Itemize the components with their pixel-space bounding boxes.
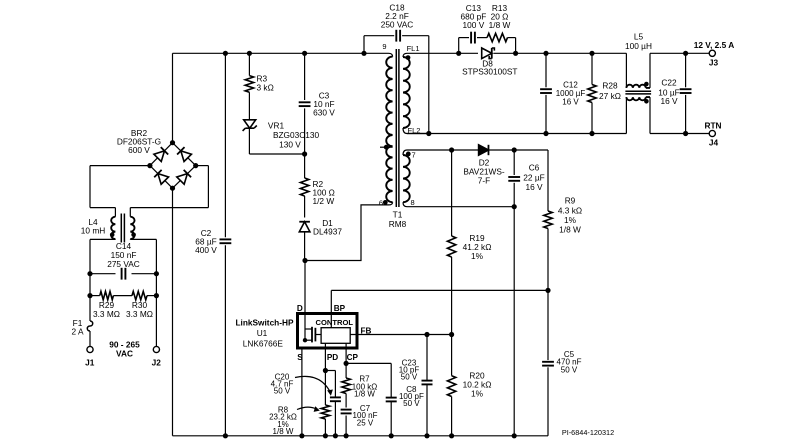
junction: C2/top rail bbox=[223, 51, 228, 56]
svg-text:50 V: 50 V bbox=[274, 387, 291, 396]
junction: R20/ground rail bbox=[449, 433, 454, 438]
diode D8 bbox=[482, 48, 495, 59]
svg-text:25 V: 25 V bbox=[357, 419, 374, 428]
terminal J4 bbox=[709, 130, 715, 136]
phase dot L5 top bbox=[644, 82, 649, 87]
wire: AC input right rail (J2 up to L4) bbox=[155, 239, 157, 346]
wire: R3 branch bbox=[248, 53, 250, 75]
wire: bridge diamond frame bbox=[150, 143, 173, 166]
svg-text:RTN: RTN bbox=[704, 121, 721, 131]
capacitor C6 bbox=[508, 176, 520, 178]
transformer T1 primary winding bbox=[386, 57, 392, 203]
junction: R30 right bbox=[154, 293, 159, 298]
junction: R3/top rail bbox=[247, 51, 252, 56]
phase dot pin 7 bbox=[406, 152, 411, 157]
wire: R9 branch bbox=[514, 149, 548, 151]
inductor L5 bottom winding bbox=[626, 97, 645, 100]
junction: R8/ground rail bbox=[323, 433, 328, 438]
wire: R19 branch bbox=[451, 150, 453, 236]
svg-text:FL1: FL1 bbox=[407, 44, 420, 53]
svg-text:10 mH: 10 mH bbox=[81, 226, 105, 236]
capacitor C22 bbox=[680, 88, 692, 90]
wire: bridge left vertex to L4 left winding bbox=[90, 165, 150, 167]
junction: bridge left vertex bbox=[147, 163, 152, 168]
junction: C18/top rail bbox=[361, 51, 366, 56]
wire: L5 bottom winding leads bbox=[625, 97, 627, 133]
wire: top rail to primary pin 9 bbox=[389, 53, 393, 56]
svg-text:22 µF: 22 µF bbox=[523, 173, 544, 183]
capacitor C2 bbox=[220, 238, 232, 240]
phase dot T1 primary pin 6 bbox=[383, 200, 388, 205]
arrow to R8 bbox=[297, 407, 317, 409]
svg-text:C22: C22 bbox=[661, 77, 677, 87]
svg-text:50 V: 50 V bbox=[401, 373, 418, 382]
svg-text:600 V: 600 V bbox=[128, 145, 150, 155]
junction: C14 right bbox=[154, 271, 159, 276]
junction: D8 cathode node bbox=[513, 51, 518, 56]
junction: C14 left bbox=[87, 271, 92, 276]
junction: C22 top bbox=[683, 51, 688, 56]
resistor R30 bbox=[132, 291, 147, 299]
svg-text:275 VAC: 275 VAC bbox=[107, 259, 140, 269]
svg-text:130 V: 130 V bbox=[279, 140, 301, 150]
svg-text:BZG03C130: BZG03C130 bbox=[273, 130, 320, 140]
wire: FB pin line bbox=[350, 334, 451, 336]
wire: pin 8 lead bbox=[403, 202, 515, 207]
junction: FB/C23 bbox=[424, 332, 429, 337]
resistor R19 bbox=[447, 236, 455, 257]
wire: primary ground rail bbox=[173, 435, 549, 437]
zener diode VR1 bbox=[244, 120, 256, 128]
junction: S/ground rail bbox=[299, 433, 304, 438]
svg-text:1/8 W: 1/8 W bbox=[489, 20, 511, 30]
resistor R7 bbox=[342, 378, 350, 394]
wire: U1 S pin to ground rail bbox=[301, 348, 303, 436]
svg-text:1/8 W: 1/8 W bbox=[559, 225, 581, 235]
svg-text:T1: T1 bbox=[393, 210, 403, 220]
wire: BP pin line bbox=[330, 290, 332, 327]
phase dot L4 left bbox=[110, 233, 115, 238]
capacitor C8 bbox=[386, 397, 397, 399]
wire: top rail (DC bus) bbox=[173, 52, 389, 54]
svg-text:DL4937: DL4937 bbox=[313, 227, 342, 237]
wire: output positive rail bbox=[516, 52, 627, 54]
svg-text:2 A: 2 A bbox=[72, 327, 84, 337]
svg-text:9: 9 bbox=[382, 42, 386, 51]
capacitor C20 bbox=[330, 396, 341, 398]
svg-text:16 V: 16 V bbox=[562, 97, 579, 106]
diode BR2 bottom-right bbox=[177, 170, 191, 184]
wire: C12 branch bbox=[545, 53, 547, 87]
svg-text:LinkSwitch-HP: LinkSwitch-HP bbox=[235, 318, 294, 328]
op-amp U1 box bbox=[298, 314, 358, 349]
svg-text:100 µH: 100 µH bbox=[625, 41, 652, 51]
wire: VR1 to junction bbox=[248, 128, 250, 154]
junction: R19 top bbox=[449, 147, 454, 152]
junction: R29 left bbox=[87, 293, 92, 298]
inductor L4 left winding bbox=[111, 217, 115, 239]
svg-text:J1: J1 bbox=[85, 358, 95, 368]
transformer T1 bias winding 7-8 bbox=[403, 155, 410, 202]
resistor R29 bbox=[100, 291, 114, 299]
svg-text:CP: CP bbox=[347, 353, 359, 362]
transistor U1 internal MOSFET bbox=[304, 314, 306, 341]
wire: C23 branch bbox=[426, 335, 428, 381]
svg-text:1/2 W: 1/2 W bbox=[313, 196, 335, 206]
wire: L4 right winding top to bridge right vertex bbox=[129, 208, 131, 217]
wire: R29-R30 line bbox=[90, 295, 100, 297]
resistor R28 bbox=[588, 85, 596, 103]
wire: C5 branch bbox=[547, 290, 549, 360]
transformer T1 core bbox=[395, 49, 397, 207]
inductor L5 core bbox=[625, 90, 651, 92]
junction: CP node bbox=[344, 361, 349, 366]
inductor L4 right winding bbox=[130, 217, 134, 239]
svg-text:3 kΩ: 3 kΩ bbox=[257, 83, 274, 93]
resistor R13 bbox=[487, 33, 507, 41]
diode D2 bbox=[479, 145, 489, 155]
wire: C20 branch bbox=[325, 370, 335, 372]
svg-text:PD: PD bbox=[327, 353, 338, 362]
capacitor C5 bbox=[542, 361, 554, 363]
wire: R20 branch bbox=[451, 335, 453, 376]
svg-text:7: 7 bbox=[412, 151, 416, 160]
wire: L5 top winding left lead bbox=[625, 53, 627, 88]
svg-text:250 VAC: 250 VAC bbox=[381, 20, 414, 30]
U1 control block bbox=[321, 328, 350, 344]
diode BR2 top-right bbox=[177, 147, 191, 161]
resistor R9 bbox=[544, 211, 552, 229]
svg-text:12 V, 2.5 A: 12 V, 2.5 A bbox=[694, 40, 734, 50]
junction: C2/ground rail bbox=[223, 433, 228, 438]
svg-text:VR1: VR1 bbox=[268, 121, 285, 131]
wire: pin 6 lead to drain node bbox=[305, 202, 393, 260]
diode D1 bbox=[299, 222, 310, 232]
junction: C12 top bbox=[543, 51, 548, 56]
wire: D1 to drain node bbox=[304, 232, 306, 261]
junction: C23/ground rail bbox=[424, 433, 429, 438]
wire: C3 branch bbox=[304, 53, 306, 100]
wire: C18 bracket bbox=[363, 36, 365, 54]
svg-text:STPS30100ST: STPS30100ST bbox=[462, 67, 517, 77]
junction: R28 bottom bbox=[589, 131, 594, 136]
wire: bridge top vertex to top rail bbox=[172, 53, 174, 142]
wire: bridge bottom vertex to ground rail bbox=[172, 188, 174, 436]
wire: secondary return rail bbox=[407, 133, 626, 135]
wire: L4 right winding bottom lead bbox=[129, 238, 131, 240]
wire: D8 leads bbox=[459, 52, 478, 54]
diode BR2 bottom-left bbox=[154, 170, 168, 184]
svg-text:J2: J2 bbox=[152, 358, 162, 368]
junction: VR1-C3 node bbox=[302, 151, 307, 156]
capacitor C18 bbox=[395, 30, 397, 42]
svg-text:1/8 W: 1/8 W bbox=[354, 390, 375, 399]
svg-text:27 kΩ: 27 kΩ bbox=[599, 91, 621, 101]
wire: R28 branch bbox=[591, 53, 593, 84]
phase dot FL1 bbox=[406, 55, 411, 60]
terminal J1 bbox=[87, 346, 93, 352]
phase dot L5 bottom bbox=[644, 99, 649, 104]
junction: C8/ground rail bbox=[389, 433, 394, 438]
svg-text:630 V: 630 V bbox=[313, 108, 335, 118]
terminal J2 bbox=[153, 346, 159, 352]
svg-text:1%: 1% bbox=[564, 215, 577, 225]
wire: L5 top winding right lead bbox=[649, 53, 651, 88]
junction: FB/R19-R20 bbox=[449, 332, 454, 337]
junction: D2 cathode node bbox=[512, 147, 517, 152]
junction: C18/return rail bbox=[426, 131, 431, 136]
terminal J3 bbox=[709, 50, 715, 56]
phase dot L4 right bbox=[131, 233, 136, 238]
junction: C22 bottom bbox=[683, 131, 688, 136]
inductor L4 core bbox=[120, 214, 122, 243]
wire: C22 branch bbox=[685, 53, 687, 87]
junction: C20/ground rail bbox=[333, 433, 338, 438]
junction: BP line / R9-C5 node bbox=[545, 288, 550, 293]
capacitor C3 bbox=[299, 101, 311, 103]
resistor R3 bbox=[245, 76, 253, 93]
svg-text:50 V: 50 V bbox=[561, 365, 578, 374]
svg-text:J4: J4 bbox=[709, 138, 719, 148]
wire: R2 branch bbox=[304, 154, 306, 178]
capacitor C12 bbox=[540, 88, 552, 90]
svg-text:1%: 1% bbox=[471, 389, 484, 399]
wire: pin 7 lead bbox=[403, 150, 452, 155]
junction: bridge bottom vertex bbox=[170, 186, 175, 191]
svg-text:6: 6 bbox=[379, 198, 383, 207]
wire: PD pin to R8 bbox=[324, 343, 326, 405]
svg-text:D: D bbox=[297, 304, 303, 313]
wire: C8 branch bbox=[346, 362, 391, 364]
capacitor C7 bbox=[341, 409, 352, 411]
junction: D1/drain node bbox=[302, 258, 307, 263]
transformer T1 secondary winding FL1-FL2 bbox=[403, 57, 410, 128]
wire: C13-R13 snubber bracket bbox=[458, 38, 460, 54]
svg-text:3.3 MΩ: 3.3 MΩ bbox=[93, 309, 120, 319]
wire: L4 left winding bottom lead bbox=[114, 238, 116, 240]
wire: C2 branch bbox=[224, 53, 226, 237]
capacitor C13 bbox=[470, 32, 472, 44]
svg-text:CONTROL: CONTROL bbox=[316, 318, 354, 327]
wire: D2 leads bbox=[452, 149, 479, 151]
svg-text:16 V: 16 V bbox=[525, 182, 543, 192]
svg-text:4.3 kΩ: 4.3 kΩ bbox=[558, 205, 582, 215]
svg-text:U1: U1 bbox=[257, 328, 268, 338]
junction: bridge right vertex bbox=[193, 163, 198, 168]
svg-text:1/8 W: 1/8 W bbox=[273, 427, 294, 436]
junction: D8 anode node bbox=[456, 51, 461, 56]
svg-text:J3: J3 bbox=[709, 58, 719, 68]
junction: bridge top vertex bbox=[170, 140, 175, 145]
resistor R2 bbox=[300, 178, 308, 196]
svg-text:8: 8 bbox=[411, 198, 415, 207]
svg-text:L5: L5 bbox=[634, 32, 644, 42]
diode BR2 top-left bbox=[154, 147, 168, 161]
svg-text:16 V: 16 V bbox=[660, 96, 678, 106]
svg-text:LNK6766E: LNK6766E bbox=[243, 339, 284, 349]
svg-text:3.3 MΩ: 3.3 MΩ bbox=[126, 309, 153, 319]
svg-text:100 V: 100 V bbox=[463, 20, 485, 30]
svg-text:400 V: 400 V bbox=[195, 245, 217, 255]
svg-text:VAC: VAC bbox=[116, 349, 133, 359]
svg-text:RM8: RM8 bbox=[389, 219, 407, 229]
wire: drain node to U1 D pin bbox=[304, 261, 306, 314]
wire: C6 branch bbox=[513, 150, 515, 175]
junction: C6 bottom / pin8 line bbox=[512, 204, 517, 209]
svg-text:R9: R9 bbox=[565, 195, 576, 205]
wire: FL2 lead to return rail bbox=[403, 128, 429, 134]
capacitor C14 bbox=[121, 268, 123, 280]
svg-text:PI-6844-120312: PI-6844-120312 bbox=[562, 428, 614, 437]
wire: FL1 lead to output rectifier bbox=[403, 53, 459, 57]
wire: output rail to J3 bbox=[650, 52, 709, 54]
fuse F1 bbox=[87, 321, 92, 331]
junction: C7/ground rail bbox=[344, 433, 349, 438]
phase dot T1 primary mid-tap bbox=[380, 146, 393, 148]
wire: AC input left rail (J1-F1-C14 node up to L4) bbox=[89, 239, 91, 321]
svg-text:BP: BP bbox=[334, 304, 346, 313]
resistor R8 bbox=[321, 405, 329, 419]
svg-text:7-F: 7-F bbox=[478, 176, 490, 186]
inductor L5 top winding bbox=[626, 85, 645, 88]
wire: C14 top line bbox=[90, 273, 116, 275]
svg-text:C6: C6 bbox=[529, 163, 540, 173]
junction: C3/top rail bbox=[302, 51, 307, 56]
junction: pin8 gnd / ground rail bbox=[512, 433, 517, 438]
junction: PD node bbox=[323, 368, 328, 373]
resistor R20 bbox=[447, 376, 455, 397]
svg-text:1%: 1% bbox=[471, 251, 484, 261]
svg-text:50 V: 50 V bbox=[403, 399, 420, 408]
junction: R28 top bbox=[589, 51, 594, 56]
arrow to C20 bbox=[295, 376, 331, 392]
wire: CP pin to R7-C7 bbox=[345, 343, 347, 378]
wire: pin8 node to ground rail bbox=[513, 207, 515, 436]
capacitor C23 bbox=[422, 380, 433, 382]
svg-text:R28: R28 bbox=[602, 81, 618, 91]
junction: C12 bottom bbox=[543, 131, 548, 136]
